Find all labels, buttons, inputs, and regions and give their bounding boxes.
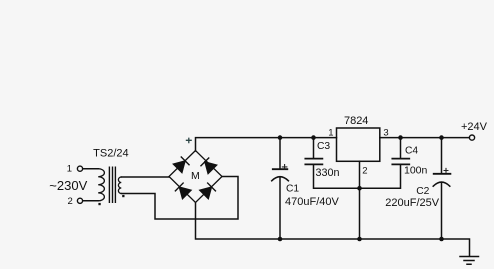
svg-text:~230V: ~230V (49, 178, 87, 193)
svg-text:1: 1 (328, 128, 333, 139)
svg-text:220uF/25V: 220uF/25V (385, 197, 439, 209)
svg-text:C1: C1 (286, 184, 299, 195)
svg-text:TS2/24: TS2/24 (93, 147, 128, 159)
svg-text:2: 2 (362, 166, 367, 177)
svg-text:100n: 100n (404, 164, 428, 176)
svg-text:470uF/40V: 470uF/40V (285, 196, 339, 208)
svg-text:1: 1 (67, 164, 72, 175)
svg-text:C3: C3 (317, 141, 330, 152)
svg-text:2: 2 (68, 196, 73, 207)
svg-text:330n: 330n (316, 167, 340, 179)
svg-text:+24V: +24V (461, 121, 488, 133)
svg-text:7824: 7824 (344, 115, 368, 127)
svg-text:M: M (191, 170, 200, 182)
svg-text:C4: C4 (405, 145, 418, 156)
svg-text:C2: C2 (416, 186, 429, 197)
svg-text:3: 3 (383, 128, 388, 139)
